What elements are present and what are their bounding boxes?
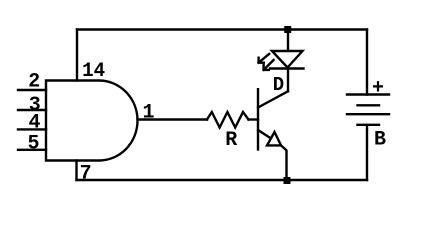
- wire resistor to transistor base: [249, 118, 259, 120]
- battery B short plate 2: [358, 124, 380, 126]
- LED light arrow 2: [264, 60, 274, 70]
- svg-text:7: 7: [80, 162, 92, 185]
- svg-text:4: 4: [28, 111, 40, 134]
- wire battery positive drop: [366, 30, 368, 95]
- junction dot top node: [284, 26, 291, 33]
- svg-text:2: 2: [28, 71, 40, 94]
- wire LED cathode to collector: [287, 70, 289, 92]
- svg-text:B: B: [374, 129, 386, 152]
- svg-text:D: D: [273, 74, 284, 96]
- LED D cathode bar: [270, 67, 304, 69]
- svg-text:R: R: [225, 129, 237, 152]
- wire gate output to resistor: [138, 118, 208, 120]
- transistor Q emitter lead: [258, 130, 270, 138]
- junction dot bottom node: [284, 177, 291, 184]
- AND gate U1 body: [46, 81, 138, 161]
- battery B long plate 2: [347, 113, 389, 115]
- transistor Q collector lead: [258, 91, 288, 107]
- pin 14 wire: [76, 30, 78, 81]
- pin 2 wire: [18, 89, 46, 91]
- LED D anode wire: [287, 30, 289, 52]
- wire top rail: [77, 28, 367, 30]
- pin 4 wire: [18, 128, 46, 130]
- svg-text:1: 1: [142, 102, 154, 125]
- svg-text:+: +: [372, 77, 384, 100]
- battery B long plate 1: [347, 93, 389, 95]
- svg-text:5: 5: [27, 132, 39, 155]
- LED light arrow 1: [259, 54, 270, 63]
- transistor Q emitter arrow triangle: [267, 132, 281, 145]
- pin 7 wire: [75, 161, 77, 181]
- resistor R zigzag: [207, 112, 249, 128]
- transistor Q emitter exit wire: [281, 145, 287, 180]
- LED D triangle: [272, 51, 303, 68]
- svg-text:14: 14: [82, 60, 105, 83]
- pin 5 wire: [18, 149, 46, 151]
- wire bottom rail: [77, 179, 368, 181]
- pin 3 wire: [18, 109, 46, 111]
- transistor Q base bar: [257, 89, 259, 149]
- battery B short plate 1: [358, 104, 380, 106]
- wire battery negative drop: [366, 125, 368, 180]
